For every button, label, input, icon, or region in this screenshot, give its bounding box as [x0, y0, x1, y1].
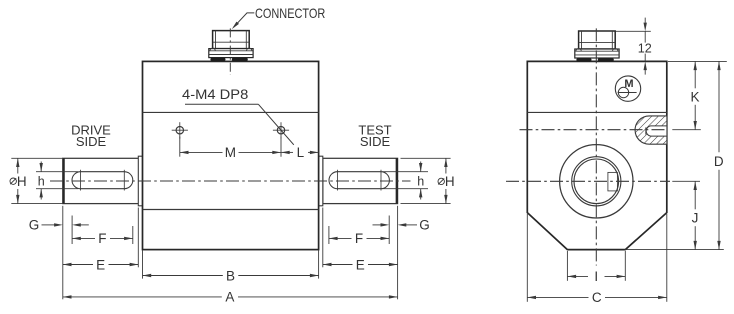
svg-text:12: 12 — [638, 41, 652, 55]
svg-text:F: F — [98, 231, 106, 246]
svg-text:F: F — [355, 231, 363, 246]
svg-text:M: M — [225, 145, 236, 160]
svg-text:J: J — [692, 210, 699, 225]
svg-text:H: H — [17, 174, 27, 189]
svg-text:h: h — [417, 175, 424, 189]
svg-text:CONNECTOR: CONNECTOR — [255, 6, 325, 21]
svg-text:H: H — [445, 174, 455, 189]
svg-text:SIDE: SIDE — [360, 134, 391, 149]
svg-text:SIDE: SIDE — [76, 134, 107, 149]
svg-text:E: E — [356, 257, 365, 272]
svg-text:C: C — [592, 290, 602, 305]
svg-text:A: A — [225, 290, 234, 305]
svg-text:M: M — [624, 78, 633, 90]
svg-text:G: G — [29, 217, 40, 232]
svg-text:K: K — [690, 89, 699, 104]
svg-text:4-M4 DP8: 4-M4 DP8 — [182, 86, 249, 102]
svg-text:G: G — [419, 217, 430, 232]
svg-text:E: E — [96, 257, 105, 272]
svg-text:B: B — [226, 268, 235, 283]
svg-text:L: L — [297, 145, 305, 160]
svg-text:h: h — [38, 175, 45, 189]
svg-text:D: D — [714, 154, 724, 169]
svg-text:I: I — [594, 269, 598, 284]
